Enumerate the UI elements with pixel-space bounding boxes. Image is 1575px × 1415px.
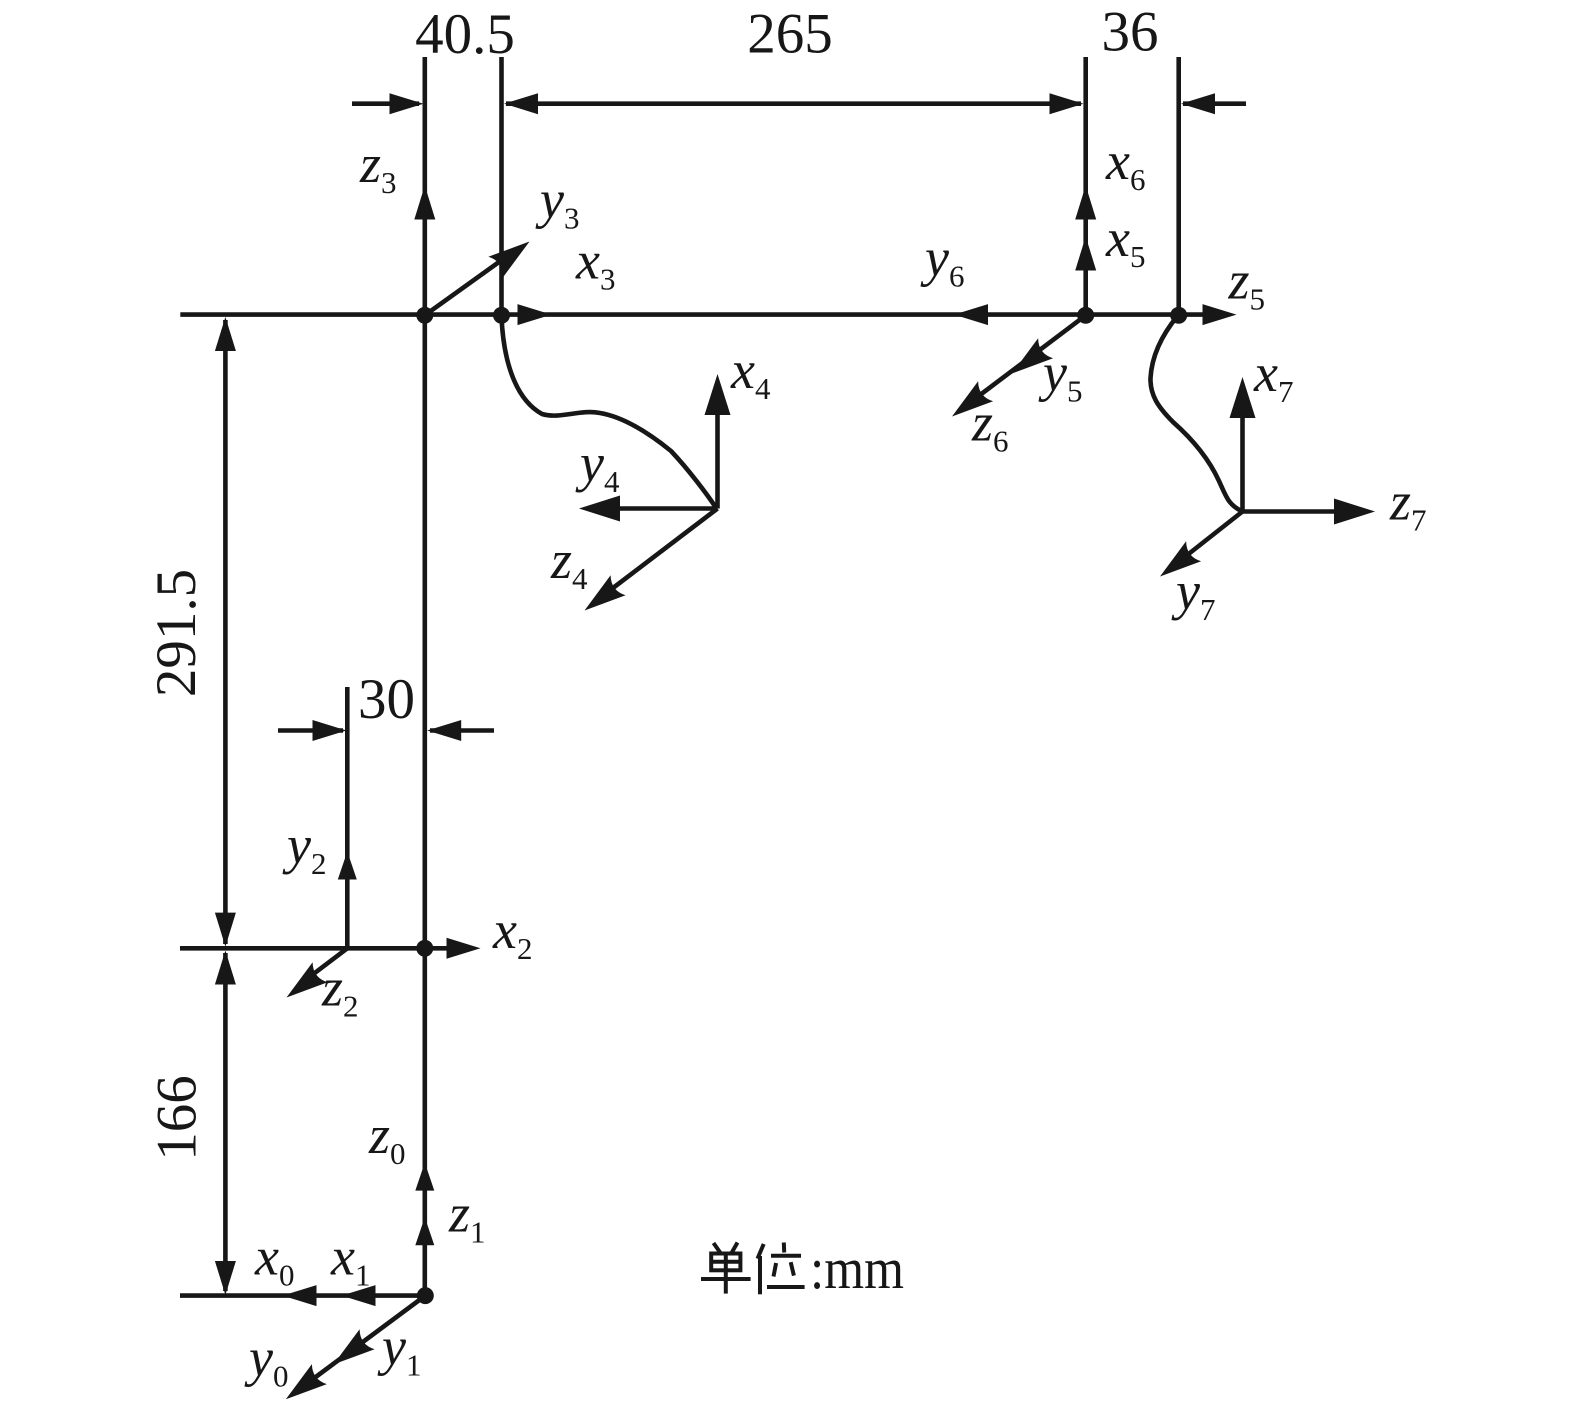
dimension 166 line <box>223 953 228 1291</box>
axis x1 arrow <box>342 1285 376 1306</box>
svg-text:x5: x5 <box>1105 208 1145 274</box>
svg-text:265: 265 <box>747 3 833 66</box>
svg-text:291.5: 291.5 <box>145 569 208 697</box>
axis x5 arrow <box>1075 237 1096 271</box>
dimension 36 arrow right <box>1183 101 1246 106</box>
svg-text:z3: z3 <box>359 134 397 200</box>
dimension 30 arrow left <box>278 728 343 733</box>
dimension 30 arrow right <box>430 728 494 733</box>
axis z7 arrow <box>1243 509 1344 514</box>
node joint 3 <box>416 307 433 324</box>
svg-text:z4: z4 <box>550 530 588 596</box>
svg-text:x0: x0 <box>254 1227 294 1293</box>
axis z4 arrow <box>611 509 718 590</box>
unit note 单位:mm glyph 单 <box>701 1243 751 1294</box>
axis x4 arrow <box>715 404 720 509</box>
svg-text:30: 30 <box>358 668 415 731</box>
wire wavy link curve frame3 to frame4 <box>502 316 717 509</box>
svg-text:y4: y4 <box>575 433 620 499</box>
axis z2 arrow <box>313 948 347 974</box>
axis x2 arrow <box>447 938 481 959</box>
axis z3 arrow <box>414 186 435 220</box>
svg-text:36: 36 <box>1102 1 1159 64</box>
svg-text:x1: x1 <box>330 1227 370 1293</box>
axis y3 arrow <box>425 257 506 315</box>
wire extension line z5 (x=1178.7) <box>1176 57 1181 315</box>
svg-text:z7: z7 <box>1389 472 1427 538</box>
axis z5 arrow <box>1203 304 1237 325</box>
svg-text:z1: z1 <box>448 1184 486 1250</box>
svg-text:y3: y3 <box>535 170 579 236</box>
svg-text:x3: x3 <box>575 231 615 297</box>
svg-text:x7: x7 <box>1253 343 1293 409</box>
wire extension line at x=501.5 <box>499 57 504 315</box>
wire wavy link curve frame5 to frame7 <box>1150 316 1242 512</box>
node joint 0/1 <box>417 1287 434 1304</box>
svg-text:x2: x2 <box>492 900 532 966</box>
axis z0 arrow <box>415 1163 434 1191</box>
dimension 265 line <box>506 101 1081 106</box>
svg-text:z2: z2 <box>321 958 359 1024</box>
svg-text:y2: y2 <box>282 815 326 881</box>
wire main horizontal line x3/y6 (y=314.6) <box>180 312 1205 317</box>
svg-text:y5: y5 <box>1038 343 1082 409</box>
wire bottom horizontal line (y=1295.6) <box>180 1293 426 1298</box>
axis x7 arrow <box>1240 407 1245 512</box>
axis y0 y1 arrows diagonal <box>311 1296 425 1381</box>
svg-text:z5: z5 <box>1228 251 1266 317</box>
axis y2 arrow <box>338 852 357 880</box>
axis y7 arrow <box>1186 512 1243 557</box>
wire 30-dim extension / y2 axis (x=347.3) <box>345 687 350 948</box>
svg-text:y0: y0 <box>244 1328 288 1394</box>
unit note 单位:mm glyph 位 <box>758 1243 805 1295</box>
dimension 291.5 line <box>223 320 228 944</box>
svg-text:z6: z6 <box>971 393 1009 459</box>
wire extension line x5/x6 axis (x=1085.7) <box>1083 57 1088 315</box>
svg-text::mm: :mm <box>810 1236 904 1301</box>
node frame5b <box>1170 307 1187 324</box>
wire vertical axis column z0/z1/z3 (x=424.8) <box>422 57 427 1296</box>
axis x0 arrow <box>283 1285 317 1306</box>
axis z1 arrow <box>415 1217 434 1245</box>
svg-text:x4: x4 <box>730 340 771 406</box>
svg-text:y1: y1 <box>377 1317 421 1383</box>
axis x3 arrow <box>518 304 552 325</box>
svg-text:166: 166 <box>146 1075 209 1161</box>
svg-text:40.5: 40.5 <box>415 3 515 66</box>
axis x6 arrow <box>1075 186 1096 220</box>
node joint 2 <box>416 940 433 957</box>
wire frame-2 horizontal line (y=947.5) <box>180 946 462 951</box>
dimension 40.5 arrow left <box>352 101 419 106</box>
axis y5 and z6 arrows diagonal <box>978 315 1086 396</box>
svg-text:x6: x6 <box>1105 131 1145 197</box>
svg-text:y6: y6 <box>920 228 964 294</box>
svg-text:y7: y7 <box>1171 561 1215 627</box>
svg-text:z0: z0 <box>368 1105 406 1171</box>
axis y6 arrow <box>954 304 988 325</box>
axis y4 arrow <box>610 506 718 511</box>
node joint 5/6 <box>1077 307 1094 324</box>
node frame3b <box>493 307 510 324</box>
